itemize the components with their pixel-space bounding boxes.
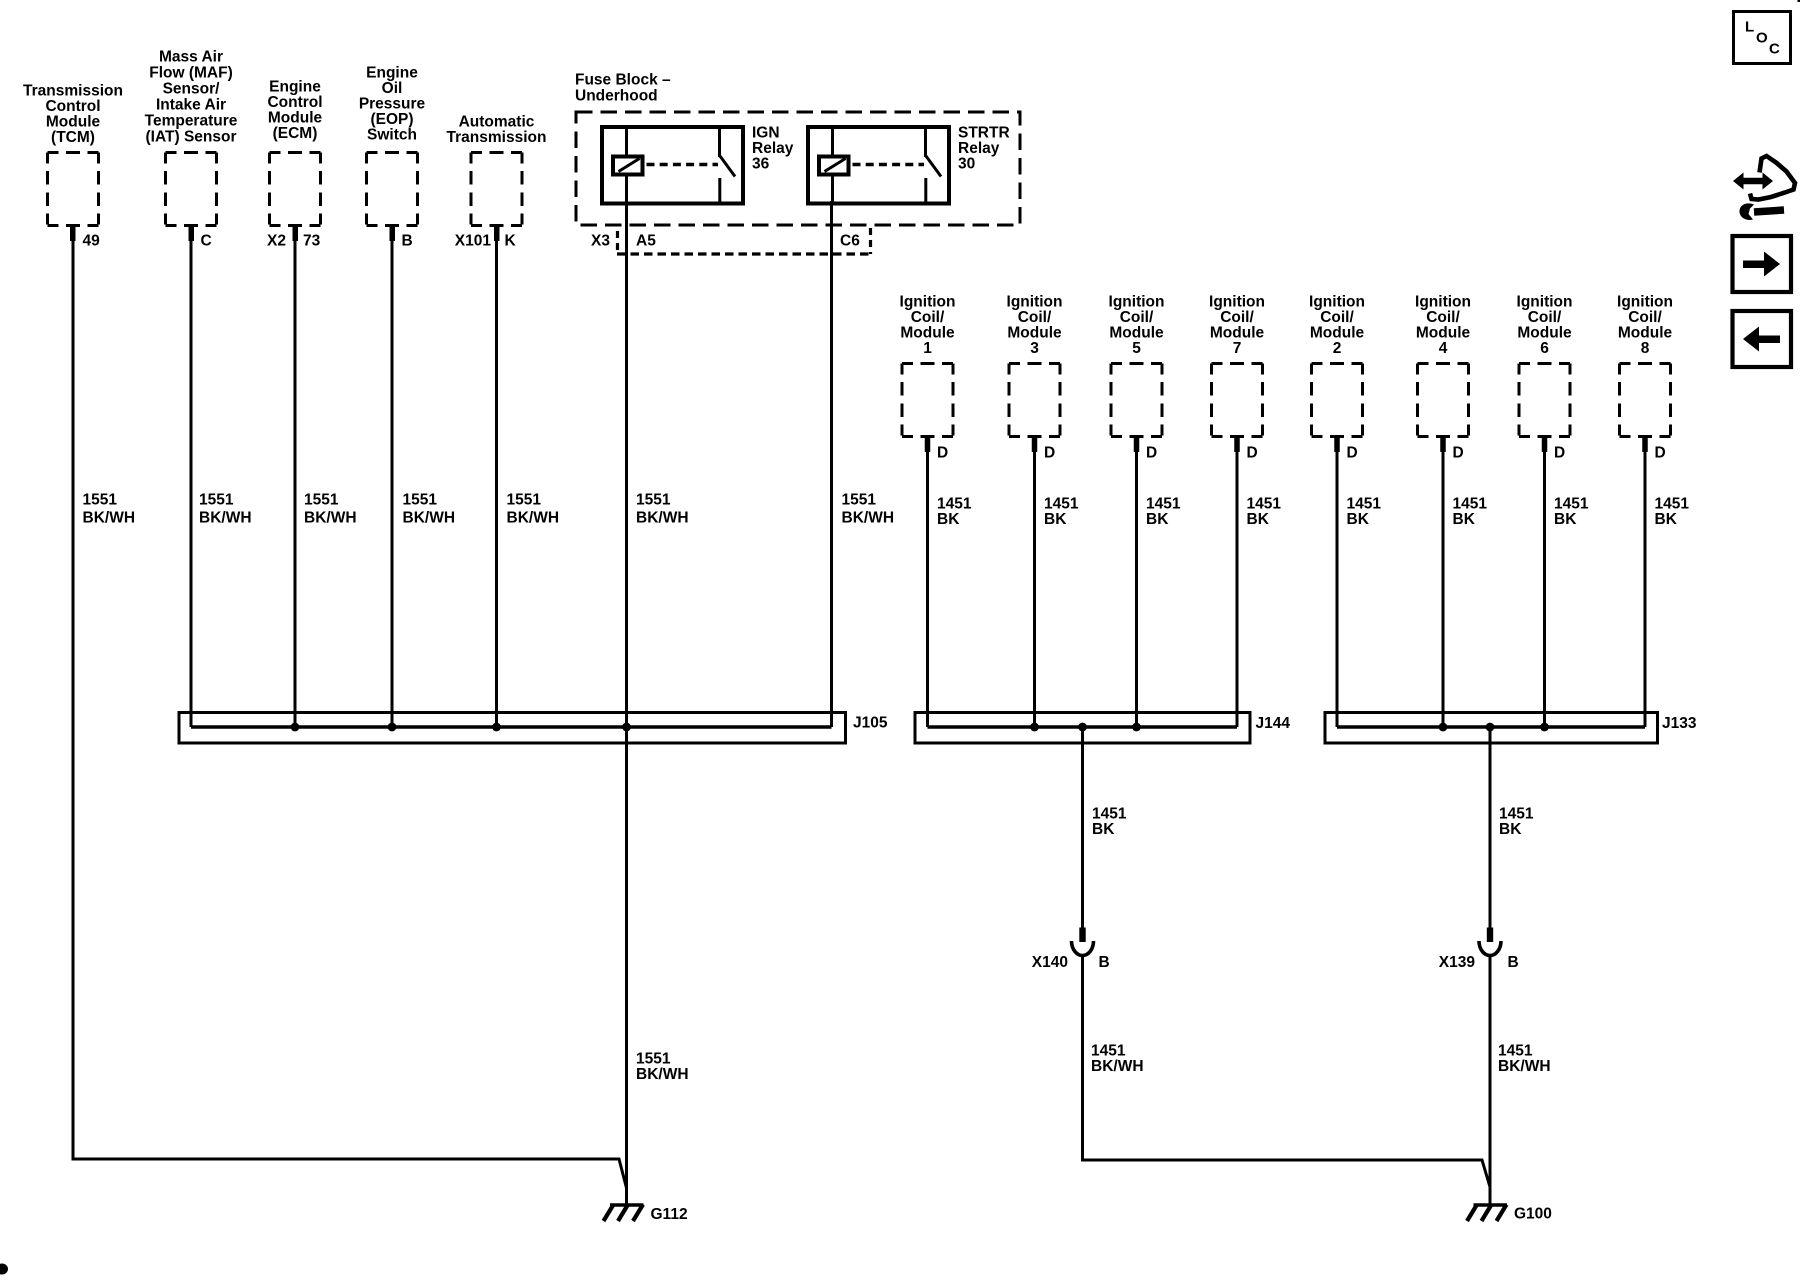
- svg-text:Control: Control: [267, 94, 322, 111]
- component Ignition Coil/Module 1: [900, 294, 956, 437]
- svg-text:Module: Module: [1109, 325, 1164, 342]
- junction dot EOP wire at J105: [388, 723, 397, 732]
- wire 1451 BK/WH from X140 to G100: [1083, 957, 1491, 1188]
- svg-text:X101: X101: [455, 233, 492, 250]
- svg-text:BK: BK: [1453, 511, 1476, 528]
- svg-text:Temperature: Temperature: [145, 113, 238, 130]
- svg-text:1451: 1451: [1044, 496, 1079, 513]
- svg-text:1551: 1551: [199, 492, 234, 509]
- wire 1551 BK/WH from EOP to J105: [392, 227, 455, 727]
- svg-text:Underhood: Underhood: [575, 88, 658, 105]
- svg-text:A5: A5: [636, 233, 656, 250]
- svg-text:1451: 1451: [1247, 496, 1282, 513]
- svg-text:Fuse Block –: Fuse Block –: [575, 72, 671, 89]
- junction dot coil5 wire at J144: [1132, 723, 1141, 732]
- svg-text:BK: BK: [1247, 511, 1270, 528]
- relay IGN Relay 36: [602, 125, 794, 204]
- wire 1451 BK from J144 to splice X140: [1083, 727, 1127, 928]
- pin B of EOP: [390, 227, 413, 250]
- pin B of X139: [1508, 954, 1519, 971]
- svg-text:C: C: [201, 233, 212, 250]
- svg-text:BK: BK: [1655, 511, 1678, 528]
- svg-text:Ignition: Ignition: [1309, 294, 1365, 311]
- svg-text:7: 7: [1233, 340, 1242, 357]
- svg-text:BK/WH: BK/WH: [636, 1066, 689, 1083]
- svg-text:(EOP): (EOP): [370, 111, 413, 128]
- svg-text:Relay: Relay: [752, 140, 794, 157]
- svg-text:1551: 1551: [507, 492, 542, 509]
- svg-text:Module: Module: [46, 114, 101, 131]
- svg-text:Sensor/: Sensor/: [163, 81, 221, 98]
- wire 1451 BK from Ignition Coil/Module 2: [1337, 438, 1381, 727]
- pin label C6: [840, 233, 860, 250]
- svg-text:Module: Module: [1210, 325, 1265, 342]
- svg-text:Coil/: Coil/: [911, 309, 945, 326]
- svg-text:BK/WH: BK/WH: [304, 510, 357, 527]
- svg-text:1551: 1551: [83, 492, 118, 509]
- svg-text:8: 8: [1641, 340, 1650, 357]
- svg-text:Transmission: Transmission: [23, 83, 123, 100]
- svg-text:Ignition: Ignition: [1109, 294, 1165, 311]
- svg-text:Module: Module: [1517, 325, 1572, 342]
- svg-text:Pressure: Pressure: [359, 96, 426, 113]
- svg-text:K: K: [505, 233, 517, 250]
- svg-text:Module: Module: [900, 325, 955, 342]
- svg-text:X3: X3: [591, 233, 610, 250]
- junction dot J144 output: [1078, 723, 1087, 732]
- svg-text:Mass Air: Mass Air: [159, 49, 223, 66]
- splice X139: [1479, 928, 1501, 956]
- svg-text:73: 73: [303, 233, 321, 250]
- pin X2 73 of ECM: [267, 227, 321, 250]
- svg-text:BK: BK: [1092, 821, 1115, 838]
- svg-text:BK/WH: BK/WH: [199, 510, 252, 527]
- svg-text:Oil: Oil: [382, 80, 403, 97]
- svg-text:Automatic: Automatic: [459, 114, 535, 131]
- svg-text:30: 30: [958, 156, 975, 173]
- svg-text:D: D: [1247, 445, 1258, 462]
- svg-text:1551: 1551: [842, 492, 877, 509]
- svg-text:5: 5: [1132, 340, 1141, 357]
- svg-text:Ignition: Ignition: [1517, 294, 1573, 311]
- svg-text:1551: 1551: [304, 492, 339, 509]
- svg-text:Ignition: Ignition: [1007, 294, 1063, 311]
- pin D of Ignition Coil/Module 2: [1334, 438, 1357, 462]
- svg-text:Engine: Engine: [366, 65, 418, 82]
- wire 1551 BK/WH from MAF pin C to J105: [191, 227, 252, 727]
- svg-text:D: D: [1347, 445, 1358, 462]
- component Ignition Coil/Module 6: [1517, 294, 1573, 437]
- svg-text:BK: BK: [937, 511, 960, 528]
- component Ignition Coil/Module 4: [1415, 294, 1471, 437]
- junction dot coil6 wire at J133: [1540, 723, 1549, 732]
- wire 1451 BK from Ignition Coil/Module 5: [1137, 438, 1181, 727]
- wire 1451 BK from Ignition Coil/Module 6: [1545, 438, 1589, 727]
- svg-text:BK: BK: [1347, 511, 1370, 528]
- wire 1451 BK from J133 to splice X139: [1490, 727, 1534, 928]
- svg-text:O: O: [1756, 30, 1768, 47]
- svg-text:Module: Module: [1618, 325, 1673, 342]
- junction dot J133 output: [1486, 723, 1495, 732]
- pin D of Ignition Coil/Module 7: [1234, 438, 1257, 462]
- junction dot IGN wire at J105: [622, 723, 631, 732]
- pin B of X140: [1099, 954, 1110, 971]
- svg-text:Coil/: Coil/: [1120, 309, 1154, 326]
- svg-text:2: 2: [1333, 340, 1342, 357]
- pin 49 of TCM: [70, 227, 100, 250]
- svg-text:Coil/: Coil/: [1018, 309, 1052, 326]
- svg-text:Ignition: Ignition: [1617, 294, 1673, 311]
- svg-text:4: 4: [1439, 340, 1448, 357]
- svg-text:BK/WH: BK/WH: [83, 510, 136, 527]
- svg-text:C: C: [1769, 41, 1780, 58]
- svg-text:Coil/: Coil/: [1320, 309, 1354, 326]
- svg-text:Module: Module: [1007, 325, 1062, 342]
- wire label 1551 BK/WH above G112: [636, 1051, 689, 1084]
- svg-text:1451: 1451: [1655, 496, 1690, 513]
- junction dot coil4 wire at J133: [1439, 723, 1448, 732]
- svg-text:X140: X140: [1032, 954, 1068, 971]
- svg-text:IGN: IGN: [752, 125, 780, 142]
- svg-text:1451: 1451: [1554, 496, 1589, 513]
- wire 1551 BK/WH from IGN relay pin A5 to J105 and G112: [627, 201, 689, 1205]
- pin label X3: [591, 233, 610, 250]
- svg-text:Coil/: Coil/: [1220, 309, 1254, 326]
- pin D of Ignition Coil/Module 1: [925, 438, 948, 462]
- svg-text:X139: X139: [1439, 954, 1476, 971]
- svg-text:L: L: [1745, 19, 1754, 36]
- svg-text:D: D: [1044, 445, 1055, 462]
- svg-text:G112: G112: [651, 1206, 688, 1223]
- wire 1451 BK from Ignition Coil/Module 8: [1645, 438, 1689, 727]
- svg-text:3: 3: [1030, 340, 1039, 357]
- svg-text:Control: Control: [45, 98, 100, 115]
- pin D of Ignition Coil/Module 8: [1642, 438, 1665, 462]
- ground G100: [1467, 1205, 1552, 1223]
- connector X3 bracket under fuse block: [617, 228, 871, 254]
- component Ignition Coil/Module 8: [1617, 294, 1673, 437]
- svg-text:36: 36: [752, 156, 770, 173]
- component Ignition Coil/Module 5: [1109, 294, 1165, 437]
- component Ignition Coil/Module 3: [1007, 294, 1063, 437]
- svg-text:Module: Module: [1416, 325, 1471, 342]
- svg-text:B: B: [402, 233, 413, 250]
- svg-text:J105: J105: [853, 715, 888, 732]
- pin D of Ignition Coil/Module 5: [1134, 438, 1157, 462]
- svg-text:Flow (MAF): Flow (MAF): [149, 65, 233, 82]
- svg-text:G100: G100: [1514, 1206, 1552, 1223]
- svg-text:49: 49: [83, 233, 101, 250]
- svg-text:1451: 1451: [1092, 806, 1127, 823]
- svg-text:Module: Module: [1310, 325, 1365, 342]
- pin C of MAF: [189, 227, 212, 250]
- svg-text:D: D: [1655, 445, 1666, 462]
- LOC reference box icon: [1734, 12, 1791, 64]
- svg-text:BK/WH: BK/WH: [842, 510, 895, 527]
- svg-text:1551: 1551: [636, 1051, 671, 1068]
- junction dot ECM wire at J105: [291, 723, 300, 732]
- svg-text:Engine: Engine: [269, 79, 321, 96]
- svg-text:Relay: Relay: [958, 140, 1000, 157]
- svg-text:Coil/: Coil/: [1426, 309, 1460, 326]
- svg-text:1451: 1451: [1453, 496, 1488, 513]
- svg-text:B: B: [1099, 954, 1110, 971]
- svg-text:Module: Module: [268, 110, 323, 127]
- svg-text:Ignition: Ignition: [900, 294, 956, 311]
- svg-text:BK/WH: BK/WH: [1091, 1058, 1144, 1075]
- pin X101 K of Automatic Transmission: [455, 227, 517, 250]
- svg-text:BK: BK: [1499, 821, 1522, 838]
- svg-text:1451: 1451: [1499, 806, 1534, 823]
- component EOP switch: [359, 65, 426, 226]
- svg-text:Coil/: Coil/: [1628, 309, 1662, 326]
- svg-text:B: B: [1508, 954, 1519, 971]
- wire 1551 BK/WH from TCM pin 49 to G112: [73, 227, 627, 1188]
- component ECM (Engine Control Module): [267, 79, 322, 226]
- svg-text:Ignition: Ignition: [1415, 294, 1471, 311]
- ground G112: [604, 1205, 688, 1224]
- svg-text:1451: 1451: [937, 496, 972, 513]
- svg-text:1451: 1451: [1347, 496, 1382, 513]
- svg-text:J144: J144: [1256, 715, 1291, 732]
- component Ignition Coil/Module 2: [1309, 294, 1365, 437]
- svg-text:X2: X2: [267, 233, 286, 250]
- svg-text:Switch: Switch: [367, 127, 417, 144]
- wire 1451 BK from Ignition Coil/Module 3: [1035, 438, 1079, 727]
- wire 1551 BK/WH from STRTR relay pin C6 to J105: [832, 201, 895, 727]
- pin D of Ignition Coil/Module 6: [1542, 438, 1565, 462]
- svg-text:1551: 1551: [636, 492, 671, 509]
- wire 1451 BK from Ignition Coil/Module 4: [1443, 438, 1487, 727]
- pin label A5: [636, 233, 656, 250]
- wire 1451 BK/WH from X139 to G100: [1490, 957, 1551, 1205]
- fuse block underhood label: [575, 72, 671, 105]
- svg-text:(TCM): (TCM): [51, 129, 95, 146]
- svg-text:1551: 1551: [403, 492, 438, 509]
- component Ignition Coil/Module 7: [1209, 294, 1265, 437]
- svg-text:(ECM): (ECM): [273, 125, 318, 142]
- wire 1451 BK from Ignition Coil/Module 7: [1237, 438, 1281, 727]
- junction dot coil3 wire at J144: [1030, 723, 1039, 732]
- relay STRTR Relay 30: [808, 125, 1010, 204]
- svg-text:6: 6: [1540, 340, 1549, 357]
- svg-text:BK/WH: BK/WH: [507, 510, 560, 527]
- junction dot AT wire at J105: [492, 723, 501, 732]
- svg-text:BK: BK: [1146, 511, 1169, 528]
- svg-text:Intake Air: Intake Air: [156, 97, 226, 114]
- svg-text:J133: J133: [1662, 715, 1697, 732]
- svg-text:STRTR: STRTR: [958, 125, 1010, 142]
- component Automatic Transmission: [447, 114, 547, 226]
- svg-text:BK/WH: BK/WH: [403, 510, 456, 527]
- wire 1451 BK from Ignition Coil/Module 1: [928, 438, 972, 727]
- svg-text:BK/WH: BK/WH: [636, 510, 689, 527]
- svg-text:D: D: [1554, 445, 1565, 462]
- label X140: [1032, 954, 1068, 971]
- back arrow icon: [1733, 311, 1792, 367]
- component MAF/IAT sensor: [145, 49, 238, 226]
- wire 1551 BK/WH from Automatic Transmission to J105: [497, 227, 560, 727]
- svg-text:C6: C6: [840, 233, 860, 250]
- splice pack J144: [915, 713, 1290, 744]
- svg-text:D: D: [937, 445, 948, 462]
- svg-text:1451: 1451: [1498, 1043, 1533, 1060]
- svg-text:Transmission: Transmission: [447, 129, 547, 146]
- svg-text:1451: 1451: [1091, 1043, 1126, 1060]
- splice pack J105: [179, 713, 888, 744]
- component TCM (Transmission Control Module): [23, 83, 123, 226]
- svg-text:BK: BK: [1044, 511, 1067, 528]
- svg-text:BK/WH: BK/WH: [1498, 1058, 1551, 1075]
- svg-text:Coil/: Coil/: [1528, 309, 1562, 326]
- pin D of Ignition Coil/Module 3: [1032, 438, 1055, 462]
- fuse block underhood dashed box: [576, 112, 1020, 225]
- svg-text:(IAT) Sensor: (IAT) Sensor: [146, 129, 237, 146]
- splice pack J133: [1325, 713, 1697, 744]
- svg-text:Ignition: Ignition: [1209, 294, 1265, 311]
- svg-text:1451: 1451: [1146, 496, 1181, 513]
- svg-text:D: D: [1453, 445, 1464, 462]
- splice X140: [1072, 928, 1094, 956]
- pin D of Ignition Coil/Module 4: [1440, 438, 1463, 462]
- label X139: [1439, 954, 1476, 971]
- svg-text:1: 1: [923, 340, 932, 357]
- hand-drawn repair/arrows icon: [1733, 156, 1795, 220]
- svg-text:BK: BK: [1554, 511, 1577, 528]
- forward arrow icon: [1733, 236, 1792, 292]
- svg-text:D: D: [1146, 445, 1157, 462]
- wire 1551 BK/WH from ECM to J105: [295, 227, 357, 727]
